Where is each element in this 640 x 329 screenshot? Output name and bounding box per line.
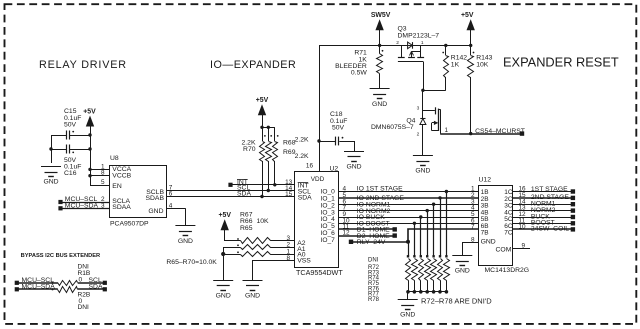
node junction C16 left [49, 147, 52, 150]
svg-text:TCA9554DWT: TCA9554DWT [296, 268, 343, 277]
svg-text:10K: 10K [257, 218, 270, 225]
svg-text:7B: 7B [481, 230, 489, 237]
node SCL (bypass) [78, 277, 107, 285]
node junction R142/rail [444, 44, 447, 47]
node junction NORM2 / resistor [426, 209, 429, 212]
svg-text:+5V: +5V [218, 212, 231, 219]
svg-text:GND: GND [245, 292, 260, 299]
svg-text:R65: R65 [240, 225, 253, 232]
svg-text:2: 2 [286, 241, 290, 248]
svg-text:MCU–SDA: MCU–SDA [22, 284, 56, 291]
svg-text:COM: COM [496, 246, 512, 253]
wire IO NORM1 (U2 pin 6 to U12) [339, 201, 479, 208]
wire R142 bottom to Q4 gate [423, 90, 446, 92]
node junction bypass SCL [51, 282, 53, 284]
svg-text:PCA9507DP: PCA9507DP [110, 220, 149, 227]
power +5V (I2C pull-ups) [256, 97, 269, 115]
node junction SW5V/rail [378, 44, 381, 47]
svg-text:SDAB: SDAB [145, 195, 164, 202]
wire R72-R78 ground bus [408, 292, 447, 300]
ground (C18) [344, 152, 364, 171]
svg-text:SW5V: SW5V [371, 12, 391, 19]
node junction R72 bottom [406, 290, 410, 294]
node 2ND STAGE (U12 pin 15) [513, 192, 575, 201]
svg-text:DMN6075S–7: DMN6075S–7 [371, 124, 414, 131]
svg-text:1ST STAGE: 1ST STAGE [531, 186, 568, 193]
node junction R70 top [260, 126, 263, 129]
wire R69 bottom to INT [274, 161, 276, 185]
resistor R67 10K [225, 211, 295, 243]
svg-text:0.5W: 0.5W [351, 70, 367, 77]
svg-text:1K: 1K [451, 61, 460, 68]
svg-text:GND: GND [372, 101, 387, 108]
ground (C15/C16) [41, 167, 61, 186]
ground (R72-R78) [398, 300, 418, 319]
svg-text:GND: GND [346, 163, 361, 170]
node junction R73 bottom [413, 290, 417, 294]
wire SCL (U8 SCLB to U2) [166, 185, 295, 192]
node D1-HOME (U2 pin 11) [339, 227, 397, 234]
transistor Q4 DMN6075S-7 [371, 90, 441, 155]
svg-text:5: 5 [101, 179, 105, 186]
resistor R76 (DNI) [431, 204, 437, 292]
node junction R70/SDA [260, 195, 263, 198]
node junction Q4 gate [421, 89, 424, 92]
wire U12 GND pin 8 [463, 243, 479, 256]
svg-text:DMP2123L–7: DMP2123L–7 [398, 33, 440, 40]
svg-text:IO_7: IO_7 [321, 237, 336, 244]
node junction R75 bottom [425, 290, 429, 294]
node junction R68/SCL [267, 189, 270, 192]
wire U2 VSS to ground [253, 261, 295, 281]
node RLY-24V [349, 239, 408, 246]
wire IO 2ND STAGE (U2 pin 5 to U12) [339, 195, 479, 202]
svg-text:EXPANDER RESET: EXPANDER RESET [503, 55, 619, 70]
svg-text:R72–R78 ARE DNI'D: R72–R78 ARE DNI'D [421, 296, 492, 305]
svg-text:R70: R70 [243, 146, 256, 153]
svg-text:GND: GND [455, 268, 470, 275]
svg-text:GND: GND [415, 168, 430, 175]
svg-text:7C: 7C [504, 230, 513, 237]
node MCU-SCL (to U8 SCLA) [58, 196, 109, 204]
transistor Q3 DMP2123L-7 [396, 26, 439, 91]
svg-text:8: 8 [286, 255, 290, 262]
svg-text:GND: GND [43, 179, 58, 186]
svg-text:2: 2 [417, 131, 420, 137]
svg-text:DNI: DNI [368, 258, 379, 264]
wire U2 VDD [319, 45, 321, 171]
node MCU-SDA (to U8 SDAA) [58, 203, 109, 211]
svg-text:MCU–SDA: MCU–SDA [65, 203, 99, 210]
node junction bypass SDA [51, 288, 53, 290]
svg-text:IO 1ST STAGE: IO 1ST STAGE [357, 186, 403, 193]
node BUCK (U12 pin 12) [513, 211, 575, 220]
resistor R68 2.2K [266, 135, 310, 162]
node junction RLY-24V [406, 240, 410, 244]
svg-text:2.2K: 2.2K [295, 153, 309, 160]
node junction R69/INT [273, 183, 276, 186]
resistor R70 2.2K [242, 135, 266, 162]
node junction R68 top [267, 126, 270, 129]
svg-text:2.2K: 2.2K [295, 137, 309, 144]
svg-text:7: 7 [471, 224, 475, 231]
node junction +5V/rail [469, 44, 472, 47]
power +5V (relay driver) [83, 108, 96, 126]
resistor R73 (DNI) [412, 223, 418, 291]
wire C15/C16 left leg [51, 135, 53, 163]
svg-text:R65–R70=10.0K: R65–R70=10.0K [166, 259, 217, 266]
node INT [228, 179, 294, 187]
ground (U12 pin 8) [452, 256, 472, 275]
node junction R74 bottom [419, 290, 423, 294]
node junction 1ST STAGE / resistor [445, 190, 448, 193]
node junction R78 bottom [445, 290, 449, 294]
wire R70 bottom to SDA [262, 161, 264, 197]
node junction VCCB [88, 174, 91, 177]
svg-text:16: 16 [306, 162, 314, 169]
wire IO BOOST (U2 pin 10 to U12) [339, 221, 479, 228]
svg-text:VSS: VSS [297, 257, 311, 264]
wire IO 1ST STAGE (U2 pin 4 to U12) [339, 186, 479, 193]
svg-text:R78: R78 [368, 297, 380, 303]
svg-text:+5V: +5V [83, 108, 96, 115]
resistor R65 10K [223, 251, 294, 256]
svg-text:U12: U12 [479, 176, 492, 183]
node 1ST STAGE (U12 pin 16) [513, 186, 575, 194]
wire R66/R65 to ground [223, 247, 225, 280]
node junction R77 bottom [438, 290, 442, 294]
svg-text:EN: EN [112, 183, 122, 190]
svg-text:1: 1 [445, 127, 449, 134]
resistor R1B 0 (DNI) [58, 264, 91, 286]
svg-text:GND: GND [216, 292, 231, 299]
node junction +5V/C15 [88, 133, 91, 136]
svg-text:U8: U8 [110, 155, 119, 162]
svg-text:12: 12 [343, 230, 351, 237]
svg-text:2: 2 [396, 40, 399, 46]
svg-text:SDA: SDA [89, 284, 103, 291]
svg-text:RELAY DRIVER: RELAY DRIVER [39, 59, 127, 71]
wire RLY-24V to U12 pin 7 [408, 229, 478, 242]
node junction R65/GND leg [221, 252, 225, 256]
ground (U2 VSS) [243, 281, 263, 300]
svg-text:3: 3 [417, 105, 420, 111]
svg-text:1: 1 [421, 40, 424, 46]
capacitor C18 [319, 111, 355, 151]
wire +5V column to U8 [90, 126, 109, 185]
wire +5V to pull-up resistors [262, 115, 275, 141]
node junction NORM1 / resistor [432, 203, 435, 206]
resistor R2B 0 (DNI) [58, 287, 91, 312]
wire U8 GND pin 4 [166, 208, 186, 225]
power +5V (U2 A2) [218, 212, 231, 230]
svg-text:50V: 50V [64, 121, 77, 128]
resistor R142 1K [442, 45, 467, 90]
resistor R72 (DNI) [406, 242, 411, 292]
ground (U8 pin 4) [175, 226, 195, 245]
ground (R65/R66) [213, 281, 233, 300]
node BOOST (U12 pin 11) [513, 217, 575, 226]
power +5V (expander reset) [461, 12, 475, 45]
node junction BUCK / resistor [419, 215, 422, 218]
resistor R143 10K [468, 45, 493, 133]
svg-text:GND: GND [178, 238, 193, 245]
svg-text:IO—EXPANDER: IO—EXPANDER [210, 59, 296, 71]
wire R68 bottom to SCL [268, 161, 270, 191]
svg-text:R143: R143 [476, 54, 492, 61]
svg-text:GND: GND [148, 208, 163, 215]
svg-text:SDA: SDA [237, 191, 251, 198]
power SW5V [371, 12, 391, 45]
node junction C18/VDD [317, 139, 320, 142]
svg-text:DNI: DNI [78, 304, 90, 311]
node junction 2ND STAGE / resistor [438, 196, 441, 199]
IC U12 MC1413DR2G [479, 176, 530, 273]
IC U2 TCA9554DWT [295, 166, 344, 278]
svg-text:C16: C16 [64, 170, 77, 177]
svg-text:VDD: VDD [311, 176, 325, 183]
node SDA (bypass) [78, 284, 107, 292]
svg-text:8: 8 [101, 170, 105, 177]
resistor R78 (DNI) [444, 192, 450, 292]
capacitor C15 [51, 108, 90, 139]
IC U8 PCA9507DP [110, 155, 167, 228]
node NORM1 (U12 pin 14) [513, 198, 575, 207]
node NORM2 (U12 pin 13) [513, 205, 575, 214]
node junction R76 bottom [432, 290, 436, 294]
svg-text:RLY–24V: RLY–24V [357, 239, 386, 246]
resistor R77 (DNI) [438, 198, 443, 292]
note DNI designators list [368, 258, 380, 303]
svg-text:Q3: Q3 [398, 26, 407, 33]
resistor R69 2.2K [273, 135, 310, 162]
svg-text:SDA: SDA [298, 194, 312, 201]
svg-text:10: 10 [519, 224, 527, 231]
svg-text:+5V: +5V [256, 97, 269, 104]
svg-text:50V: 50V [332, 124, 345, 131]
svg-text:MC1413DR2G: MC1413DR2G [485, 267, 530, 274]
resistor R66 10K [224, 244, 295, 249]
node MCU-SCL (bypass) [15, 277, 58, 285]
wire SDA (U8 SDAB to U2) [166, 191, 295, 198]
wire IO BUCK (U2 pin 9 to U12) [339, 214, 479, 221]
svg-text:BYPASS I2C BUS EXTENDER: BYPASS I2C BUS EXTENDER [21, 253, 101, 259]
svg-text:10K: 10K [476, 61, 489, 68]
wire IO NORM2 (U2 pin 7 to U12) [339, 208, 479, 215]
node 24SW–COIL (U12 pin 10) [513, 224, 575, 233]
wire main rail (Q3 row) [319, 45, 471, 47]
pin 9 U12 COM stub [513, 242, 530, 249]
svg-text:GND: GND [400, 312, 415, 319]
svg-text:24SW–COIL: 24SW–COIL [531, 226, 569, 233]
capacitor C16 [51, 145, 90, 178]
svg-text:9: 9 [522, 242, 526, 249]
node junction BOOST / resistor [413, 222, 416, 225]
svg-text:+5V: +5V [461, 12, 474, 19]
node CS54-MCURST [440, 127, 525, 136]
svg-text:SDAA: SDAA [112, 204, 131, 211]
svg-text:CS54–MCURST: CS54–MCURST [475, 128, 525, 135]
svg-text:VCCB: VCCB [112, 173, 131, 180]
node junction R143/CS54-MCURST [469, 132, 472, 135]
resistor R71 1K BLEEDER [335, 45, 383, 89]
ground (R71) [370, 89, 390, 109]
node D2-HOME (U2 pin 12) [339, 233, 397, 240]
svg-text:R142: R142 [451, 54, 467, 61]
resistor R74 (DNI) [419, 217, 424, 292]
resistor R75 (DNI) [425, 211, 431, 292]
node MCU-SDA (bypass) [15, 284, 58, 292]
node junction +5V/C16 [88, 147, 91, 150]
svg-text:15: 15 [285, 191, 293, 198]
svg-text:GND: GND [481, 238, 496, 245]
node junction VCCA [88, 168, 91, 171]
ground (Q4 source) [413, 156, 433, 175]
